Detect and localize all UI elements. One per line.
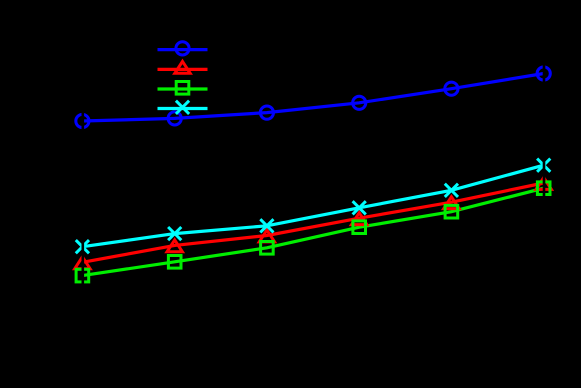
blue series line: [82, 74, 543, 122]
legend entry red line with triangle marker: [158, 61, 208, 73]
green square markers: [76, 182, 550, 282]
right axis spine (black, overlays last-column markers): [543, 33, 546, 330]
legend entry green line with square marker: [158, 82, 208, 95]
green series line: [82, 188, 543, 275]
red triangle markers: [75, 178, 552, 269]
left axis spine (black, overlays first-column markers): [82, 33, 85, 330]
blue circle markers: [76, 67, 551, 128]
legend entry cyan line with x marker: [158, 101, 208, 114]
red series line: [82, 183, 543, 262]
legend entry blue line with circle marker: [158, 42, 208, 55]
cyan x markers: [76, 159, 551, 254]
cyan series line: [82, 165, 543, 247]
